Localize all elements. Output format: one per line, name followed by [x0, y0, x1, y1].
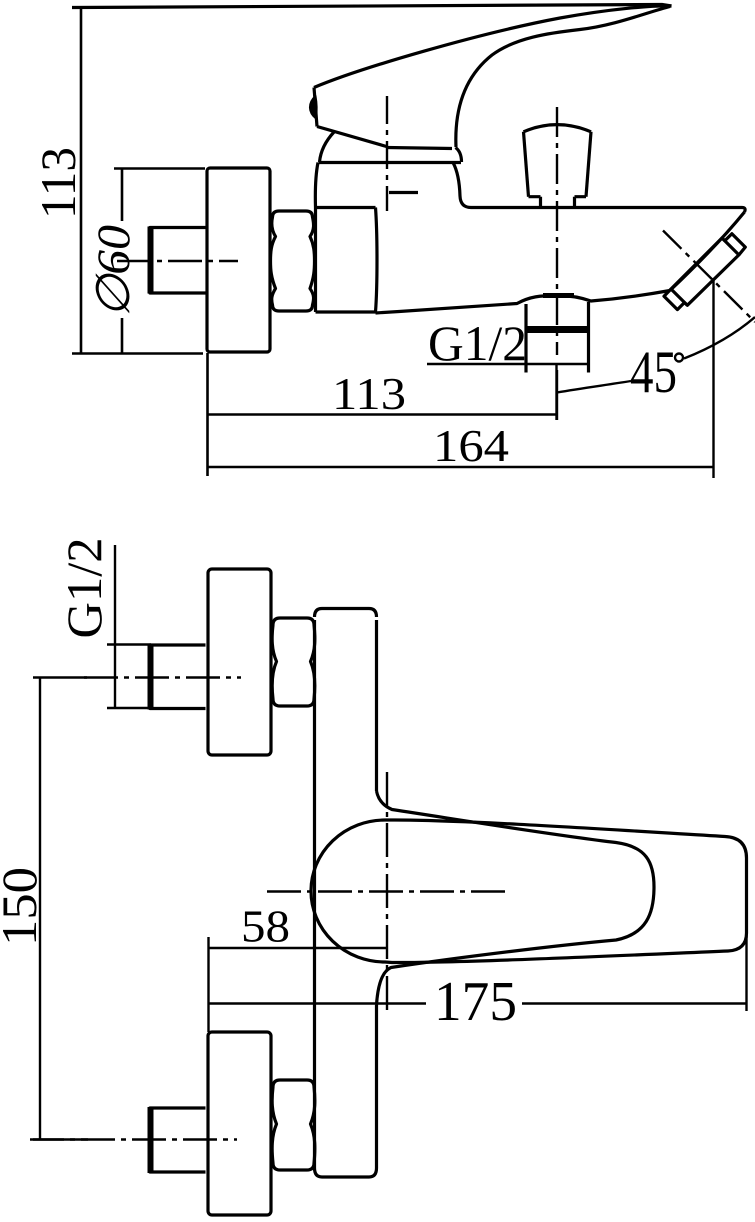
upper pipe thick face — [148, 644, 154, 710]
diverter knob left edge — [524, 132, 529, 197]
body column right edge lower — [375, 1005, 378, 1168]
extension line below escutcheon — [206, 353, 209, 476]
dim 45 arc left segment — [557, 381, 631, 393]
body left edge — [315, 163, 318, 313]
cartridge cap left edge — [320, 132, 335, 162]
dim 175 right extension — [745, 930, 747, 1011]
escutcheon plate (side view) — [207, 168, 270, 352]
dim 113 vertical line — [80, 7, 83, 353]
dim 45 arc right segment — [684, 317, 755, 359]
svg-text:113: 113 — [30, 147, 86, 219]
spout underside thick plateau — [543, 293, 574, 298]
upper hex nut (front view) — [272, 618, 315, 706]
aerator end step bottom — [664, 289, 687, 310]
body connector right edge — [376, 208, 378, 313]
svg-text:164: 164 — [433, 420, 509, 471]
svg-text:45: 45 — [630, 339, 677, 405]
diverter knob top arc — [524, 125, 592, 132]
dim 150 bottom tick — [33, 1138, 88, 1140]
shower outlet right edge — [587, 302, 590, 373]
wall pipe upper (side view) — [150, 228, 206, 294]
lower pipe thick face — [148, 1107, 154, 1173]
dim 113 horizontal line — [208, 413, 558, 416]
wire top extension line + handle top edge — [72, 5, 672, 8]
spout platform top line — [471, 208, 745, 213]
handle lower-left edge — [317, 127, 387, 147]
dim Ø60 line upper part — [121, 169, 124, 222]
handle horizontal centerline — [267, 890, 508, 892]
aerator axis centerline — [663, 231, 755, 323]
shower outlet thick thread band — [525, 326, 590, 333]
body column top — [315, 609, 377, 618]
svg-text:175: 175 — [434, 971, 517, 1033]
G1/2 dim line vertical — [114, 545, 116, 708]
aerator end step top — [722, 234, 745, 255]
lower pipe centerline — [30, 1138, 237, 1140]
dim 58 line — [209, 947, 389, 949]
upper pipe centerline — [84, 676, 241, 678]
svg-text:G1/2: G1/2 — [428, 315, 527, 371]
lower escutcheon (front view) — [208, 1032, 271, 1215]
dim 58 left extension — [207, 937, 209, 1032]
diverter knob bottom edges — [529, 195, 587, 198]
body connector bottom edge — [316, 310, 376, 313]
cartridge centerline — [386, 96, 388, 211]
handle inner face line — [377, 791, 655, 1005]
spout 45 degree cut edge — [670, 212, 745, 291]
cartridge datum dash — [389, 191, 418, 194]
upper escutcheon (front view) — [208, 569, 271, 755]
dim Ø60 top extension — [114, 167, 205, 170]
dim 150 top tick — [33, 676, 87, 678]
upper pipe (front view) — [150, 645, 206, 709]
G1/2 extension ticks — [107, 645, 151, 709]
lower hex nut (front view) — [272, 1080, 315, 1170]
dim 45 degree circle — [675, 354, 683, 362]
wall pipe thick face — [148, 227, 154, 294]
body column left edge — [313, 620, 316, 1168]
lower pipe (front view) — [150, 1108, 206, 1172]
body right edge to platform — [453, 163, 471, 208]
handle outer outline (front view) — [311, 820, 747, 963]
handle tip lens — [310, 96, 317, 119]
dim 164 line — [208, 466, 714, 469]
svg-text:150: 150 — [0, 867, 47, 946]
aerator body (rotated) — [671, 238, 739, 305]
handle tip end face — [314, 88, 317, 127]
dim 175 line — [209, 1002, 747, 1004]
dim 150 line — [39, 678, 41, 1140]
handle vertical centerline — [386, 772, 388, 1013]
pipe centerline — [117, 260, 238, 262]
dim 113 bottom extension line — [72, 352, 203, 355]
shower outlet left edge — [524, 304, 527, 373]
body column bottom — [315, 1168, 377, 1177]
dim Ø60 line lower part — [121, 318, 124, 354]
handle back edge — [456, 7, 670, 148]
dim 113 right extension — [556, 370, 558, 420]
svg-text:113: 113 — [332, 368, 406, 419]
body connector top edge — [316, 206, 376, 209]
svg-text:G1/2: G1/2 — [56, 538, 112, 639]
diverter centerline — [556, 107, 558, 355]
handle lever (side view) blade underside — [314, 6, 672, 88]
G1/2 underline leader — [427, 363, 588, 366]
cartridge cap bottom line — [319, 161, 462, 164]
hex nut (side view) — [271, 211, 315, 311]
diverter knob right edge — [586, 132, 591, 197]
cartridge cap right edge — [456, 148, 462, 163]
body column right edge upper — [375, 620, 378, 791]
handle skirt bottom line — [387, 148, 453, 149]
dim 45 extension line — [712, 278, 714, 478]
spout underside — [376, 291, 671, 314]
svg-text:58: 58 — [241, 901, 290, 952]
diverter knob neck — [541, 197, 575, 208]
svg-text:∅60: ∅60 — [88, 225, 140, 318]
outlet extension line — [555, 365, 557, 420]
